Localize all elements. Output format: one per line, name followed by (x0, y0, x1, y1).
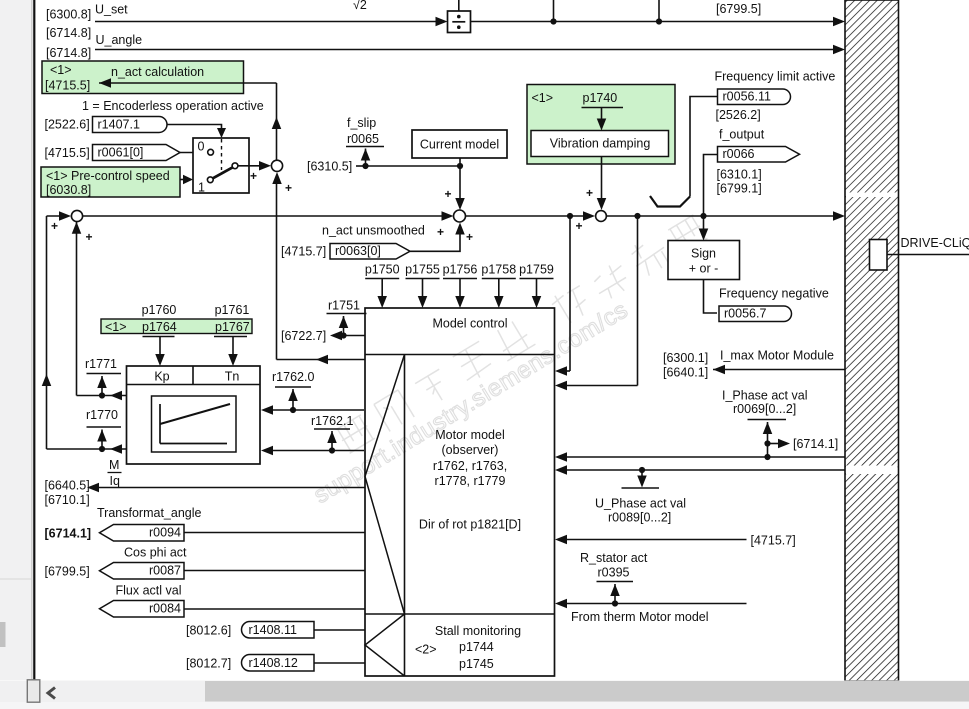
svg-text:r0056.11: r0056.11 (723, 90, 771, 104)
arrow pre-control into switch (183, 175, 193, 185)
divider block U1 (square-root/divide) (448, 11, 471, 33)
arrow into S0 (59, 211, 71, 221)
svg-text:√2: √2 (353, 0, 367, 12)
green box pre-control speed (41, 167, 180, 197)
svg-text:+: + (250, 169, 257, 183)
arrow p1740 down (601, 108, 603, 123)
p1750 underline (365, 278, 399, 280)
main n_act wire S0 to S2 (83, 215, 447, 217)
wire from top into divider U1 (458, 0, 460, 11)
svg-text:p1758: p1758 (481, 263, 516, 277)
svg-text:Cos phi act: Cos phi act (124, 546, 187, 560)
svg-text:<2>: <2> (415, 643, 437, 657)
svg-text:+: + (575, 219, 582, 233)
svg-text:r0084: r0084 (149, 602, 181, 616)
DRIVE-CLiQ port box (870, 240, 888, 271)
arrow up to r0065 (361, 149, 371, 161)
wire model control feedback row (277, 359, 366, 361)
switch contact 0 (208, 149, 214, 155)
svg-text:p1767: p1767 (215, 320, 250, 334)
svg-text:Kp: Kp (154, 370, 169, 384)
arrow down to U_Phase bar (637, 476, 647, 488)
svg-text:Transformat_angle: Transformat_angle (97, 506, 201, 520)
svg-text:U_angle: U_angle (96, 33, 143, 47)
wire up from f_slip junction (365, 149, 367, 167)
arrow up to r1771 (97, 376, 107, 388)
arrow [6722.7] row (330, 331, 342, 341)
arrow into n_act calculation box (99, 78, 111, 88)
wire voltage row (562, 469, 845, 471)
mid arrow feedback row (316, 355, 328, 365)
arrow p1767 into Tn (232, 337, 234, 358)
wire r1770 path vertical (46, 216, 48, 449)
wire C2 down to sign block (703, 216, 705, 233)
svg-text:[6710.1]: [6710.1] (45, 493, 90, 507)
junction dot under current model (457, 163, 463, 169)
characteristic y-axis (159, 404, 161, 444)
svg-text:I_max Motor Module: I_max Motor Module (720, 349, 834, 363)
svg-text:[6799.5]: [6799.5] (716, 2, 761, 16)
characteristic curve (160, 404, 230, 424)
svg-text:Motor model: Motor model (435, 428, 504, 442)
svg-text:0: 0 (198, 140, 205, 154)
wire torque row (94, 487, 365, 489)
diagram left border (33, 0, 35, 680)
svg-text:p1750: p1750 (365, 263, 400, 277)
characteristic x-axis (160, 443, 227, 445)
junction dot r0069 upper (764, 440, 770, 446)
junction dot r1762.0 (290, 407, 296, 413)
svg-text:[6300.1]: [6300.1] (663, 351, 708, 365)
svg-text:<1>: <1> (532, 91, 554, 105)
arrow I_max row (713, 365, 725, 375)
arrow f_output into hatched band (833, 211, 845, 221)
svg-text:r1408.12: r1408.12 (249, 656, 298, 670)
arrow U_angle into hatched band (833, 45, 845, 55)
green box p1764 p1767 (101, 319, 252, 334)
svg-text:p1744: p1744 (459, 640, 494, 654)
svg-text:p1759: p1759 (519, 263, 554, 277)
connector r1408.12 (242, 655, 315, 672)
arrow into divider U1 (436, 17, 448, 27)
svg-text:<1> Pre-control speed: <1> Pre-control speed (46, 169, 170, 183)
svg-text:1 = Encoderless operation acti: 1 = Encoderless operation active (82, 99, 264, 113)
junction dot r0395 (612, 600, 618, 606)
svg-text:Model control: Model control (432, 317, 507, 331)
svg-text:1: 1 (198, 181, 205, 195)
svg-text:[6300.8]: [6300.8] (46, 8, 91, 22)
svg-text:+: + (85, 230, 92, 244)
svg-text:[6640.1]: [6640.1] (663, 366, 708, 380)
wire current model down to S2 (459, 158, 461, 203)
wire stub up from junction A1 (553, 0, 555, 22)
wire into S0 from left (47, 215, 66, 217)
svg-text:Sign: Sign (691, 247, 716, 261)
PI header divider (127, 384, 261, 386)
svg-text:r1762, r1763,: r1762, r1763, (433, 459, 507, 473)
svg-text:[6799.5]: [6799.5] (45, 565, 90, 579)
svg-text:[6310.1]: [6310.1] (717, 168, 762, 182)
svg-text:[6310.5]: [6310.5] (307, 160, 352, 174)
r1771 underline (87, 373, 122, 375)
svg-text:[6722.7]: [6722.7] (281, 329, 326, 343)
switch contact 1 (207, 177, 213, 183)
arrow p1759 into model control (536, 279, 538, 301)
arrow phase current into model control (555, 452, 567, 462)
connector r0066 (718, 147, 800, 163)
svg-text:Stall monitoring: Stall monitoring (435, 624, 521, 638)
summer node S2 (454, 210, 466, 222)
svg-text:p1764: p1764 (142, 320, 177, 334)
arrow down into S2 (455, 198, 465, 210)
junction dot C1 (634, 213, 640, 219)
box Sign + or - (668, 241, 740, 280)
watermark forum text (decorative) (333, 211, 708, 455)
junction dot f_slip (362, 163, 368, 169)
box Current model (412, 130, 507, 158)
hatch band tile seam 2 (846, 193, 898, 198)
arrow p1758 into model control (498, 279, 500, 301)
arrow up into S2 bottom (455, 223, 465, 235)
wire r0069 vertical (767, 422, 769, 457)
wire r0063 to S2 bottom (410, 231, 460, 251)
wire r1771 path vertical (76, 222, 78, 396)
svg-text:Iq: Iq (110, 474, 120, 488)
svg-text:r1771: r1771 (85, 357, 117, 371)
svg-text:r1407.1: r1407.1 (98, 118, 140, 132)
wire n_act calc feedback vertical (276, 83, 278, 161)
stall bowtie diagonals (365, 614, 405, 676)
mid arrow up on n_act feedback (272, 117, 282, 129)
svg-text:p1760: p1760 (142, 303, 177, 317)
junction dot r1762.1 (329, 447, 335, 453)
wire n_act calc feedback horizontal (99, 82, 277, 84)
arrow up to r1762.0 (288, 389, 298, 401)
mid arrow r1770 row (110, 444, 122, 454)
summer node S3 (596, 211, 607, 222)
svg-text:+: + (444, 187, 451, 201)
connector r0061[0] (93, 145, 181, 161)
arrow p1764 into Kp (159, 337, 161, 358)
r0065 underline (346, 146, 384, 148)
wire S2 to S3 (466, 215, 590, 217)
arrow up into S1 from feedback (272, 172, 282, 184)
svg-text:r0066: r0066 (723, 147, 755, 161)
r1762.0 underline (275, 386, 311, 388)
arrow into sign block (699, 229, 709, 241)
wire B1 down (569, 216, 571, 371)
wire r1771 row (77, 395, 127, 397)
mid arrow r1771 row (110, 391, 122, 401)
p1764 underline (143, 336, 175, 338)
svg-text:M: M (109, 458, 119, 472)
wire I_max row (713, 369, 845, 371)
bottom scrollbar area (0, 681, 969, 709)
svg-text:[6799.1]: [6799.1] (717, 182, 762, 196)
wire port to right edge (887, 254, 969, 256)
p1767 underline (214, 336, 247, 338)
svg-text:<1>: <1> (50, 63, 72, 77)
svg-text:[6714.1]: [6714.1] (45, 527, 92, 541)
connector r0056.11 (718, 89, 791, 105)
U_Phase bar (622, 487, 660, 489)
wire r0084 row (184, 608, 365, 610)
svg-text:f_slip: f_slip (347, 116, 376, 130)
arrow [4715.7] into model control (555, 535, 567, 545)
svg-text:+: + (285, 181, 292, 195)
left sidebar strip (0, 0, 33, 680)
wire U_set to divider (95, 21, 436, 23)
wire [6310.5] dash (356, 165, 366, 167)
left mini scrollbar thumb (0, 622, 6, 647)
wire r1770 row (47, 448, 127, 450)
arrow into summer S2 (442, 211, 454, 221)
arrow up to r1751 (339, 316, 349, 328)
box vibration damping inner (531, 131, 669, 157)
connector r0056.7 (719, 306, 792, 322)
wire r1762.1 row (272, 450, 364, 452)
connector r1407.1 (93, 117, 168, 133)
arrow voltage into model control (555, 465, 567, 475)
svg-text:U_set: U_set (95, 3, 128, 17)
hatch band tile seam (846, 466, 898, 475)
PI header vertical (192, 366, 194, 385)
wire therm model row (562, 603, 747, 605)
bottom scrollbar thumb (205, 681, 969, 702)
arrow to [6714.1] right (778, 439, 790, 449)
svg-text:[2526.2]: [2526.2] (716, 108, 761, 122)
svg-text:R_stator act: R_stator act (580, 551, 648, 565)
model control inner vertical (404, 355, 406, 677)
wire C1 down (637, 216, 639, 386)
svg-text:DRIVE-CLiQ: DRIVE-CLiQ (901, 236, 969, 250)
stall section divider (365, 613, 555, 615)
junction dot B1 (567, 213, 573, 219)
wire pre-control to switch (180, 179, 184, 181)
svg-text:+: + (466, 230, 473, 244)
wire switch output (238, 165, 260, 167)
junction dot r1751 (340, 332, 346, 338)
junction dot A1 (550, 18, 556, 24)
r0395 underline (597, 581, 634, 583)
arrow p1750 into model control (381, 279, 383, 301)
svg-text:+: + (51, 219, 58, 233)
svg-text:r0089[0...2]: r0089[0...2] (608, 511, 671, 525)
p1759 underline (520, 278, 554, 280)
svg-text:r1751: r1751 (328, 299, 360, 313)
junction dot C2 (700, 213, 706, 219)
r1751 underline (327, 313, 367, 315)
arrow up to r1762.1 (327, 431, 337, 443)
svg-text:n_act unsmoothed: n_act unsmoothed (322, 224, 425, 238)
svg-text:I_Phase act val: I_Phase act val (722, 389, 807, 403)
wire feedback up from model control output (276, 176, 278, 360)
r0069 underline (748, 419, 787, 421)
svg-text:p1740: p1740 (583, 91, 618, 105)
wire r1408.12 row (314, 662, 365, 664)
svg-text:[4715.7]: [4715.7] (751, 534, 796, 548)
arrow down into S3 (597, 198, 607, 210)
wire U_angle to DRIVE-CLiQ (95, 49, 838, 51)
arrow up to r0069 (763, 422, 773, 434)
arrow into model control right edge r2 (555, 381, 567, 391)
arrow p1755 into model control (422, 279, 424, 301)
svg-text:r0061[0]: r0061[0] (98, 146, 144, 160)
limit symbol (650, 196, 690, 207)
connector r0094 (100, 525, 185, 542)
svg-text:+: + (437, 225, 444, 239)
svg-text:f_output: f_output (719, 128, 765, 142)
wire C1 into model control (560, 385, 638, 387)
wire r0094 row (184, 532, 365, 534)
svg-text:[4715.7]: [4715.7] (281, 245, 326, 259)
svg-text:[6640.5]: [6640.5] (45, 479, 90, 493)
p1755 underline (406, 278, 440, 280)
summer node S1 (271, 160, 282, 171)
junction dot r1770 (99, 446, 105, 452)
svg-text:[6714.8]: [6714.8] (46, 26, 91, 40)
svg-text:p1745: p1745 (459, 657, 494, 671)
svg-text:p1755: p1755 (405, 263, 440, 277)
junction dot r1771 (99, 392, 105, 398)
svg-text:p1756: p1756 (443, 263, 478, 277)
svg-text:[6030.8]: [6030.8] (46, 183, 91, 197)
svg-text:r0087: r0087 (149, 564, 181, 578)
svg-text:r1778, r1779: r1778, r1779 (435, 474, 506, 488)
wire S3 to hatched band (607, 215, 839, 217)
svg-text:p1761: p1761 (215, 303, 250, 317)
wire U_Phase down (641, 470, 643, 480)
wire phase current row (562, 456, 845, 458)
wire divider output to DRIVE-CLiQ (471, 21, 839, 23)
svg-text:[8012.7]: [8012.7] (186, 657, 231, 671)
arrow down into switch control (217, 128, 226, 138)
svg-text:(observer): (observer) (442, 443, 499, 457)
model control header divider (365, 354, 555, 356)
wire C2 up to r0066 (704, 155, 718, 217)
arrow into model control right edge r1 (555, 366, 567, 376)
wire [4715.7] row (562, 539, 747, 541)
switch dashed control line (221, 139, 223, 170)
svg-text:n_act calculation: n_act calculation (111, 65, 204, 79)
switch lever (213, 167, 233, 178)
svg-text:U_Phase act val: U_Phase act val (595, 497, 686, 511)
connector r0087 (100, 563, 185, 580)
svg-text:r1762.0: r1762.0 (272, 370, 314, 384)
svg-text:[8012.6]: [8012.6] (186, 624, 231, 638)
svg-text:Tn: Tn (225, 370, 240, 384)
svg-text:r0395: r0395 (598, 566, 630, 580)
svg-text:r0063[0]: r0063[0] (335, 244, 381, 258)
svg-text:[4715.5]: [4715.5] (45, 146, 90, 160)
wire stub up from junction A2 (658, 0, 660, 22)
switch box S1 (193, 138, 249, 193)
PI characteristic inner box (152, 396, 237, 452)
arrow r1762.1 into PI box (261, 446, 273, 456)
arrow up to r1770 (97, 430, 107, 442)
svg-text:+ or -: + or - (689, 262, 719, 276)
svg-text:r0094: r0094 (149, 526, 181, 540)
p1756 underline (443, 278, 477, 280)
svg-text:r1770: r1770 (86, 408, 118, 422)
wire B1 into model control (560, 370, 570, 372)
svg-text:r1408.11: r1408.11 (249, 623, 297, 637)
arrow torque row (87, 483, 99, 493)
box PI controller (127, 366, 261, 464)
green box vibration damping outer (527, 85, 675, 165)
arrow therm row into model control (555, 599, 567, 609)
svg-text:[6714.8]: [6714.8] (46, 46, 91, 60)
svg-text:<1>: <1> (105, 320, 127, 334)
svg-text:Flux actl val: Flux actl val (116, 584, 182, 598)
connector r0063[0] (330, 244, 410, 260)
p1740 underline (582, 107, 624, 109)
r1762.1 underline (314, 428, 350, 430)
scrollbar left arrow (48, 688, 55, 699)
box Model control main (365, 308, 555, 676)
junction dot U_Phase (639, 467, 645, 473)
wire limit to r0056.11 (690, 97, 718, 197)
arrow into S3 from left (583, 211, 595, 221)
p1758 underline (482, 278, 516, 280)
arrow U_set line into hatched band (833, 17, 845, 27)
wire vibration damping to S3 (601, 157, 603, 203)
connector r0084 (100, 601, 185, 618)
svg-text:Dir of rot p1821[D]: Dir of rot p1821[D] (419, 518, 521, 532)
svg-text:r0069[0...2]: r0069[0...2] (733, 402, 796, 416)
wire sign to r0056.7 (704, 280, 718, 314)
arrow up to r0395 (610, 584, 620, 596)
svg-text:Vibration damping: Vibration damping (550, 137, 651, 151)
svg-text:[6714.1]: [6714.1] (793, 437, 838, 451)
wire f_slip to current model drop (366, 165, 461, 167)
wire r0087 row (184, 570, 365, 572)
green box n_act calculation (42, 61, 244, 94)
junction dot r0069 lower (764, 454, 770, 460)
mid arrow up r1770 path (42, 374, 52, 386)
svg-text:From therm Motor model: From therm Motor model (571, 610, 709, 624)
scrollbar corner piece (27, 680, 40, 702)
model control funnel diagonals (365, 355, 405, 615)
svg-text:r0065: r0065 (347, 132, 379, 146)
wire to [6714.1] right (768, 443, 784, 445)
arrow r1762.0 into PI box (261, 405, 273, 415)
switch pivot contact (232, 163, 238, 169)
svg-text:[4715.5]: [4715.5] (45, 79, 90, 93)
wire r0061 to switch contact 0 (180, 152, 208, 154)
svg-text:[2522.6]: [2522.6] (45, 118, 90, 132)
svg-text:r0056.7: r0056.7 (724, 307, 766, 321)
connector r1408.11 (242, 622, 315, 639)
svg-text:r1762.1: r1762.1 (311, 414, 353, 428)
r1770 underline (87, 426, 122, 428)
wire r1762.0 row (272, 409, 364, 411)
svg-text:Frequency limit active: Frequency limit active (715, 70, 836, 84)
arrow p1756 into model control (459, 279, 461, 301)
svg-text:Current model: Current model (420, 138, 499, 152)
wire r1408.11 row (314, 629, 365, 631)
wire r1407.1 to switch top (167, 125, 222, 131)
arrow up into S0 bottom (72, 222, 82, 234)
wire r1751 row (344, 335, 366, 337)
summer node S0 (71, 210, 82, 221)
arrow switch output into summer (259, 161, 271, 171)
svg-text:Frequency negative: Frequency negative (719, 287, 829, 301)
svg-text:+: + (586, 186, 593, 200)
junction dot A2 (656, 18, 662, 24)
